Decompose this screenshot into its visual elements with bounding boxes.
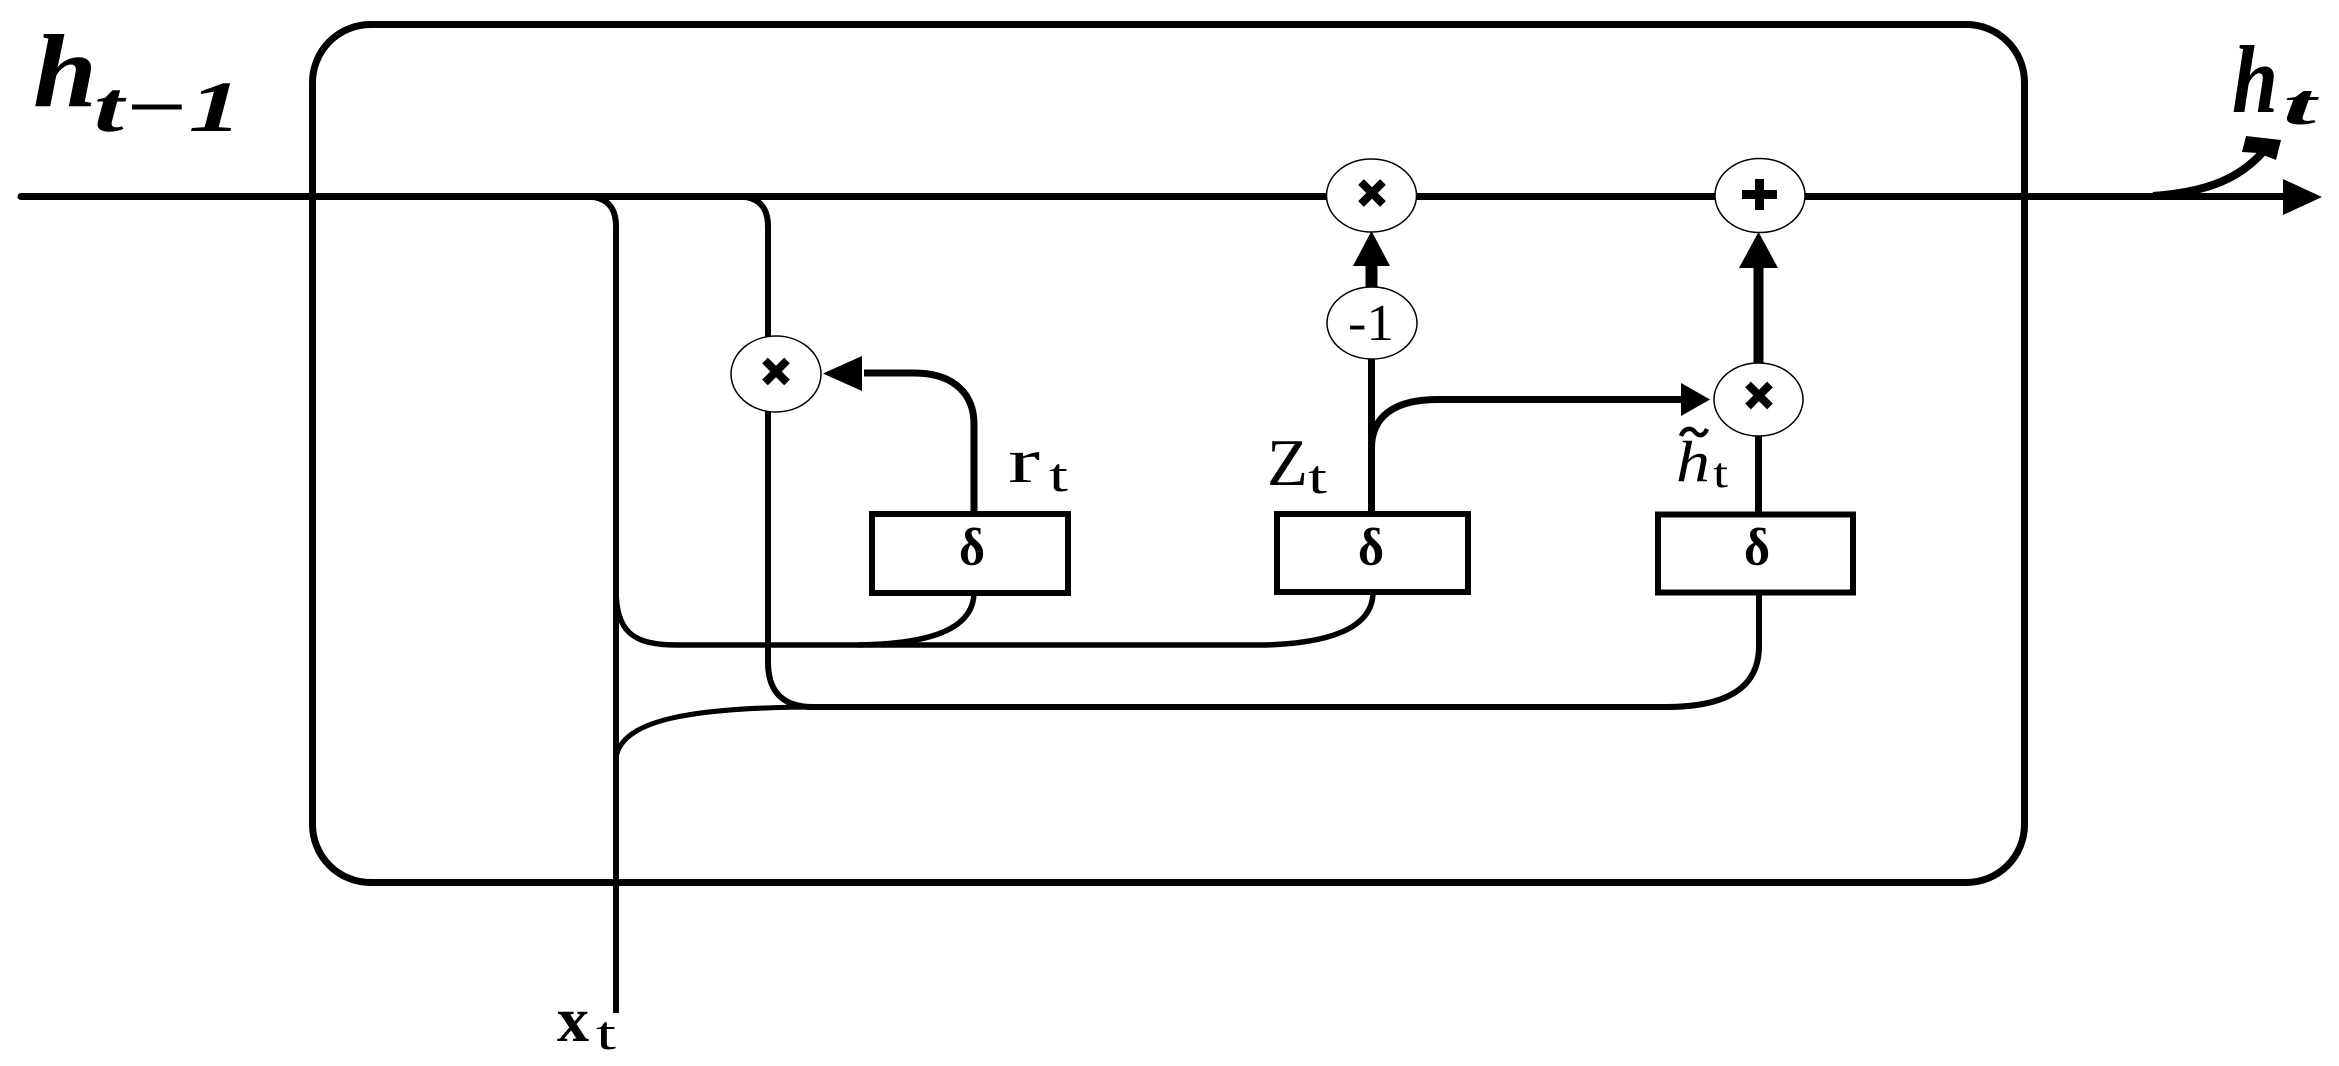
wire: sigma3 top to multiply 3 <box>1755 436 1762 515</box>
plus node (on main line) <box>1715 159 1805 233</box>
wire: branch curve up into sigma1 bottom <box>858 592 974 645</box>
svg-text:t−1: t−1 <box>94 67 242 147</box>
arrowhead into multiply 1 <box>823 356 862 391</box>
svg-text:x: x <box>557 984 589 1055</box>
svg-text:Z: Z <box>1267 426 1308 500</box>
sigma gate 1 (reset gate) <box>872 514 1068 593</box>
wire: x_t sweep joining horizontal y=707 <box>616 707 820 758</box>
wire: r_t output from sigma1 up and left into multiply 1 <box>864 373 974 514</box>
arrowhead into multiply 3 <box>1681 383 1710 416</box>
svg-text:h: h <box>2232 26 2278 133</box>
-1 node <box>1327 287 1417 359</box>
svg-text:t: t <box>2283 72 2320 137</box>
arrowhead swash <box>2242 136 2281 160</box>
svg-text:δ: δ <box>1358 519 1384 577</box>
svg-text:δ: δ <box>959 519 985 577</box>
svg-text:r: r <box>1008 425 1040 496</box>
svg-text:t: t <box>1049 449 1069 502</box>
multiply node 3 (candidate application) <box>1714 363 1803 436</box>
GRU cell body (rounded rectangle) <box>313 25 2025 883</box>
svg-text:h: h <box>1676 429 1710 494</box>
wire: z_t branch right toward multiply 3 <box>1372 400 1683 449</box>
arrowhead main line right <box>2283 179 2322 215</box>
wire: swash arrow to h_t <box>2153 153 2262 196</box>
svg-text:δ: δ <box>1744 519 1770 577</box>
svg-text:t: t <box>1713 451 1728 497</box>
wire: z_t vertical from sigma2 up to -1 circle <box>1368 359 1375 514</box>
multiply node 2 (on main line) <box>1327 159 1417 232</box>
wire: -1 circle to multiply 2 (bold arrow up) <box>1366 263 1378 288</box>
sigma gate 3 (candidate gate) <box>1658 515 1853 593</box>
svg-text:t: t <box>1308 451 1328 504</box>
sigma gate 2 (update gate) <box>1277 514 1468 592</box>
wire: main h line (h_t-1 to h_t) <box>21 193 2284 200</box>
tilde of h~ <box>1681 429 1707 436</box>
svg-text:t: t <box>596 1007 617 1060</box>
svg-text:-1: -1 <box>1348 295 1394 352</box>
arrowhead into multiply 2 <box>1353 231 1390 266</box>
svg-text:h: h <box>33 14 97 129</box>
wire: multiply 3 to plus (bold arrow up) <box>1754 266 1764 364</box>
wire: branch 1 from main line down at x=616 (continues as x_t input line) <box>586 197 616 1014</box>
wire: corner from vertical x=616 into horizontal y=645 feeding delta gates <box>616 588 1373 645</box>
multiply node 1 (reset gate application) <box>731 336 821 412</box>
arrowhead into plus <box>1739 232 1778 268</box>
wire: branch 2 from main line down at x=768 through multiply, to candidate gate <box>738 197 1759 708</box>
